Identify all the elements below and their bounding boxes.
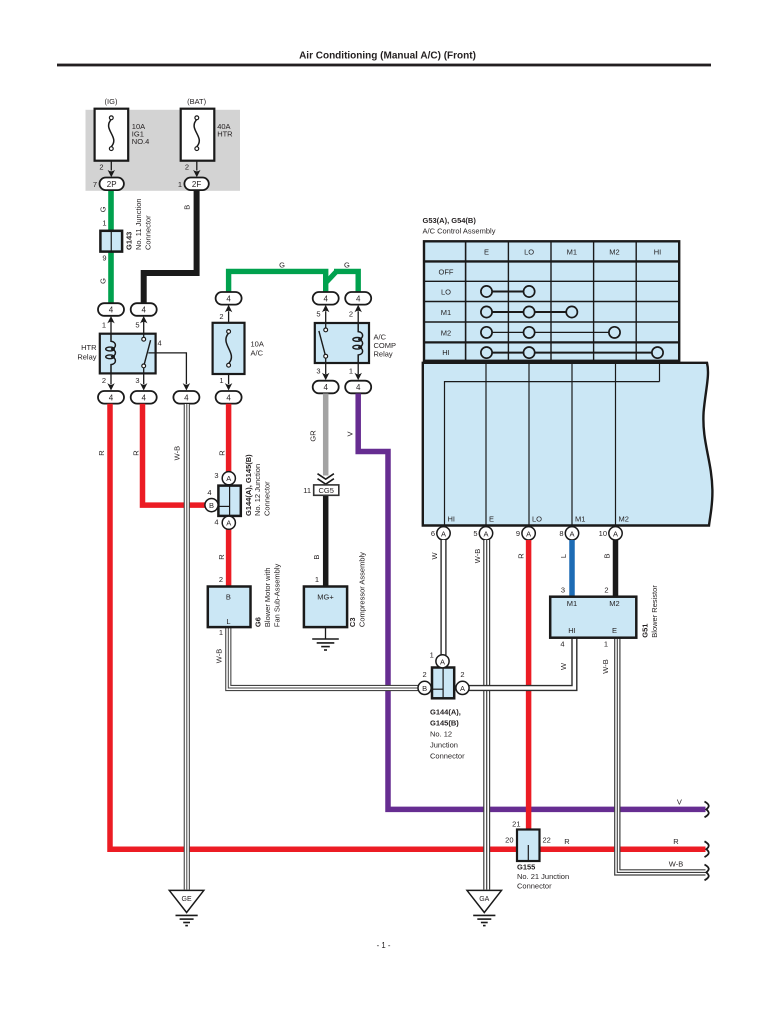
svg-text:W-B: W-B bbox=[173, 446, 182, 460]
svg-text:1: 1 bbox=[102, 219, 106, 228]
svg-text:CG5: CG5 bbox=[318, 486, 333, 495]
svg-text:B: B bbox=[422, 684, 427, 693]
wire: green G from G143 to oval 4 bbox=[108, 251, 114, 304]
arrow down from fuse A/C bbox=[225, 374, 232, 391]
label R near G155 bbox=[564, 837, 570, 846]
svg-text:2: 2 bbox=[604, 586, 608, 595]
svg-text:1: 1 bbox=[315, 575, 319, 584]
svg-text:LO: LO bbox=[524, 247, 534, 256]
svg-text:Junction: Junction bbox=[430, 741, 458, 750]
svg-text:GR: GR bbox=[309, 430, 318, 442]
wire: W-B from blower motor pin1 to junction B bbox=[228, 627, 418, 688]
svg-text:W: W bbox=[559, 662, 568, 670]
blower motor G6 bbox=[208, 563, 282, 637]
svg-text:W-B: W-B bbox=[601, 659, 610, 673]
page number bbox=[377, 941, 391, 950]
wire color labels left column bbox=[97, 430, 354, 663]
wire: blue L from control pin8 to resistor bbox=[569, 540, 575, 598]
header rule bbox=[57, 64, 711, 67]
svg-text:M1: M1 bbox=[575, 515, 585, 524]
svg-text:HI: HI bbox=[654, 247, 662, 256]
block: A/C control assembly body bbox=[423, 363, 713, 526]
svg-text:R: R bbox=[673, 837, 679, 846]
block internal wire E bbox=[485, 363, 487, 526]
svg-text:8: 8 bbox=[559, 529, 563, 538]
label G wire color (lower) bbox=[98, 278, 107, 284]
svg-text:Connector: Connector bbox=[144, 215, 153, 250]
svg-text:G155: G155 bbox=[517, 863, 535, 872]
wire: purple V from COMP pin1 to right edge bbox=[358, 394, 705, 810]
svg-text:9: 9 bbox=[102, 254, 106, 263]
wire: gray GR from COMP pin3 to CG5 bbox=[323, 394, 329, 476]
label B wire color bbox=[183, 205, 192, 210]
connector oval 4 (HTR relay pin 5 top) bbox=[131, 303, 157, 316]
continuation arrow V bbox=[705, 802, 709, 818]
wire: black B from 2F to oval 4 bbox=[144, 190, 197, 304]
table row LO contacts bbox=[481, 286, 535, 297]
svg-text:G: G bbox=[98, 278, 107, 284]
svg-text:NO.4: NO.4 bbox=[132, 137, 150, 146]
ground at compressor bbox=[312, 627, 339, 650]
arrow up into COMP pin5 oval bbox=[316, 305, 329, 323]
svg-text:2: 2 bbox=[423, 670, 427, 679]
label R at right bbox=[673, 837, 679, 846]
svg-text:G143: G143 bbox=[125, 232, 134, 250]
svg-text:G: G bbox=[98, 206, 107, 212]
svg-text:4: 4 bbox=[184, 393, 189, 402]
svg-text:21: 21 bbox=[512, 819, 520, 828]
connector pin 9 A bbox=[516, 527, 535, 540]
wire: HTR relay pin 4 tap bbox=[148, 353, 190, 391]
svg-text:LO: LO bbox=[532, 515, 542, 524]
svg-text:A: A bbox=[440, 657, 445, 666]
svg-text:5: 5 bbox=[316, 310, 320, 319]
svg-text:2: 2 bbox=[219, 575, 223, 584]
svg-text:3: 3 bbox=[135, 376, 139, 385]
svg-text:B: B bbox=[183, 205, 192, 210]
svg-text:4: 4 bbox=[214, 518, 218, 527]
svg-text:Compressor Assembly: Compressor Assembly bbox=[357, 552, 366, 627]
svg-text:Air Conditioning (Manual A/C): Air Conditioning (Manual A/C) (Front) bbox=[299, 51, 476, 62]
svg-text:G53(A), G54(B): G53(A), G54(B) bbox=[423, 216, 477, 225]
connector oval 2F bbox=[178, 178, 209, 191]
arrow into 2F bbox=[193, 161, 200, 178]
svg-text:6: 6 bbox=[431, 529, 435, 538]
svg-text:A: A bbox=[441, 529, 446, 538]
label G wire color (upper) bbox=[98, 206, 107, 212]
svg-text:A: A bbox=[226, 519, 231, 528]
svg-text:2: 2 bbox=[460, 670, 464, 679]
block internal wire M2 bbox=[615, 363, 617, 526]
svg-text:R: R bbox=[131, 450, 140, 456]
svg-text:2: 2 bbox=[349, 310, 353, 319]
svg-text:A/C Control Assembly: A/C Control Assembly bbox=[423, 227, 496, 236]
svg-text:11: 11 bbox=[303, 486, 311, 495]
block internal wire LO bbox=[528, 363, 530, 526]
svg-text:2F: 2F bbox=[192, 180, 201, 189]
svg-text:G51: G51 bbox=[641, 624, 650, 638]
svg-text:2: 2 bbox=[185, 163, 189, 172]
svg-text:E: E bbox=[489, 515, 494, 524]
wire: black B from control pin10 to resistor bbox=[613, 540, 619, 598]
arrow up into fuse A/C oval bbox=[219, 305, 232, 323]
svg-text:4: 4 bbox=[207, 488, 211, 497]
title: Air Conditioning (Manual A/C) (Front) bbox=[299, 51, 476, 62]
svg-text:(BAT): (BAT) bbox=[187, 97, 207, 106]
svg-text:3: 3 bbox=[316, 367, 320, 376]
ground GE bbox=[169, 890, 204, 925]
label G53(A), G54(B) A/C Control Assembly bbox=[423, 216, 496, 236]
wire: W from control pin6 to junction2 bbox=[440, 540, 446, 655]
svg-text:A: A bbox=[569, 529, 574, 538]
svg-text:22: 22 bbox=[543, 835, 551, 844]
svg-text:B: B bbox=[209, 501, 214, 510]
connector CG5 bbox=[303, 474, 339, 496]
svg-text:G: G bbox=[344, 260, 350, 269]
svg-text:4: 4 bbox=[226, 393, 231, 402]
svg-text:1: 1 bbox=[430, 651, 434, 660]
svg-text:W-B: W-B bbox=[669, 859, 683, 868]
svg-text:4: 4 bbox=[356, 294, 361, 303]
svg-text:E: E bbox=[484, 247, 489, 256]
svg-text:G145(B): G145(B) bbox=[430, 719, 459, 728]
svg-text:Connector: Connector bbox=[263, 481, 272, 516]
relay HTR bbox=[77, 334, 161, 374]
connector oval 4 (HTR pin3 bottom) bbox=[131, 391, 157, 404]
svg-text:LO: LO bbox=[441, 288, 451, 297]
wire: red R from fuse A/C to junction A bbox=[226, 404, 232, 472]
svg-text:G6: G6 bbox=[254, 617, 263, 627]
svg-text:HTR: HTR bbox=[217, 130, 233, 139]
svg-text:2: 2 bbox=[99, 163, 103, 172]
svg-text:V: V bbox=[677, 798, 682, 807]
connector pin 5 A bbox=[473, 527, 492, 540]
svg-text:1: 1 bbox=[219, 628, 223, 637]
svg-text:1: 1 bbox=[219, 376, 223, 385]
connector pin 8 A bbox=[559, 527, 578, 540]
wire: red R from HTR pin2 to bottom bus bbox=[110, 404, 706, 849]
svg-text:A: A bbox=[613, 529, 618, 538]
connector oval 4 (fuse A/C top) bbox=[216, 292, 242, 305]
svg-text:Connector: Connector bbox=[517, 882, 552, 891]
svg-text:No. 21 Junction: No. 21 Junction bbox=[517, 872, 569, 881]
wire: green G bus to A/C fuse and COMP relay bbox=[229, 260, 359, 293]
table row M2 contacts bbox=[481, 327, 620, 338]
connector oval 4 (HTR relay pin 1 top) bbox=[98, 303, 124, 316]
connector oval 4 (COMP pin3 bottom) bbox=[313, 381, 339, 394]
fuse 10A A/C bbox=[213, 323, 264, 385]
svg-text:R: R bbox=[97, 450, 106, 456]
svg-text:1: 1 bbox=[349, 367, 353, 376]
arrow into 2P bbox=[108, 161, 115, 178]
connector oval 4 (HTR pin4 bottom) bbox=[173, 391, 199, 404]
svg-text:10: 10 bbox=[599, 529, 607, 538]
wire: red R junction A to blower motor bbox=[226, 529, 232, 587]
svg-text:M1: M1 bbox=[567, 599, 577, 608]
svg-text:2: 2 bbox=[219, 312, 223, 321]
svg-text:3: 3 bbox=[214, 471, 218, 480]
svg-text:M2: M2 bbox=[609, 247, 619, 256]
fuse 10A IG1 NO.4 bbox=[95, 97, 150, 172]
connector pin 6 A bbox=[431, 527, 450, 540]
svg-text:No. 12 Junction: No. 12 Junction bbox=[253, 464, 262, 516]
svg-text:W-B: W-B bbox=[473, 549, 482, 563]
connector oval 4 (COMP pin5 top) bbox=[313, 292, 339, 305]
svg-text:A: A bbox=[460, 684, 465, 693]
connector pin 10 A bbox=[599, 527, 623, 540]
connector oval 4 (fuse A/C bottom) bbox=[216, 391, 242, 404]
svg-text:Blower Motor with: Blower Motor with bbox=[263, 567, 272, 627]
svg-text:Blower Resistor: Blower Resistor bbox=[650, 585, 659, 638]
block internal wire M1 bbox=[571, 363, 573, 526]
table row M1 contacts bbox=[481, 306, 578, 317]
svg-text:B: B bbox=[602, 553, 611, 558]
arrow down from pin3 bbox=[135, 373, 147, 390]
svg-text:G144(A), G145(B): G144(A), G145(B) bbox=[244, 454, 253, 516]
fuse 40A HTR bbox=[181, 97, 233, 172]
wire: red R from control pin9 to G155 bbox=[526, 540, 532, 845]
wire: W from resistor HI to junction2 A bbox=[469, 639, 575, 689]
svg-text:4: 4 bbox=[560, 640, 564, 649]
svg-text:HI: HI bbox=[448, 515, 456, 524]
svg-text:A/C: A/C bbox=[251, 349, 264, 358]
svg-text:Relay: Relay bbox=[77, 353, 96, 362]
svg-text:M1: M1 bbox=[441, 308, 451, 317]
svg-text:A: A bbox=[483, 529, 488, 538]
svg-text:5: 5 bbox=[473, 529, 477, 538]
block internal wire HI column bbox=[659, 363, 661, 382]
svg-text:4: 4 bbox=[323, 383, 328, 392]
svg-text:4: 4 bbox=[158, 339, 162, 348]
svg-text:R: R bbox=[516, 553, 525, 559]
svg-text:B: B bbox=[226, 593, 231, 602]
connector oval 2P bbox=[93, 178, 124, 191]
svg-text:B: B bbox=[312, 555, 321, 560]
junction connector G155 No.21 bbox=[505, 819, 569, 890]
svg-text:2P: 2P bbox=[107, 180, 117, 189]
wire: W-B from resistor E to right edge bbox=[617, 639, 705, 873]
wire color labels under control assembly bbox=[430, 549, 611, 674]
svg-text:M2: M2 bbox=[441, 328, 451, 337]
arrow up into COMP pin2 oval bbox=[349, 305, 362, 323]
svg-text:No. 12: No. 12 bbox=[430, 730, 452, 739]
svg-text:GE: GE bbox=[182, 896, 192, 903]
svg-text:L: L bbox=[559, 554, 568, 558]
arrow down from COMP pin3 bbox=[316, 363, 329, 380]
arrow down from COMP pin1 bbox=[349, 363, 362, 380]
ground GA bbox=[467, 890, 502, 925]
continuation arrow R bbox=[705, 841, 709, 857]
connector oval 4 (COMP pin2 top) bbox=[345, 292, 371, 305]
svg-text:V: V bbox=[346, 431, 355, 436]
svg-text:9: 9 bbox=[516, 529, 520, 538]
svg-text:HTR: HTR bbox=[81, 343, 97, 352]
svg-text:No. 11 Junction: No. 11 Junction bbox=[134, 198, 143, 250]
svg-text:- 1 -: - 1 - bbox=[377, 941, 391, 950]
relay A/C COMP bbox=[315, 323, 396, 363]
svg-text:4: 4 bbox=[356, 383, 361, 392]
wire: red R from HTR pin3 to junction B bbox=[143, 404, 206, 505]
svg-text:3: 3 bbox=[561, 586, 565, 595]
arrow up into oval pin1 bbox=[102, 316, 115, 334]
svg-text:M2: M2 bbox=[609, 599, 619, 608]
svg-text:4: 4 bbox=[109, 393, 114, 402]
wire: W-B from HTR pin4 oval to ground GE bbox=[184, 404, 190, 890]
svg-text:G144(A),: G144(A), bbox=[430, 708, 461, 717]
junction connector G144(A) G145(B) No.12 (lower) bbox=[418, 651, 469, 761]
label V at right bbox=[677, 798, 682, 807]
block pin name labels bbox=[448, 515, 629, 524]
svg-text:M1: M1 bbox=[567, 247, 577, 256]
svg-text:2: 2 bbox=[102, 376, 106, 385]
svg-text:C3: C3 bbox=[348, 618, 357, 628]
svg-text:HI: HI bbox=[568, 626, 576, 635]
svg-text:HI: HI bbox=[442, 348, 450, 357]
fuse box panel bbox=[86, 110, 241, 191]
table row HI contacts bbox=[481, 347, 663, 358]
svg-text:1: 1 bbox=[178, 180, 182, 189]
svg-text:4: 4 bbox=[323, 294, 328, 303]
compressor MG+ C3 bbox=[304, 552, 367, 627]
svg-text:G: G bbox=[279, 260, 285, 269]
svg-text:Connector: Connector bbox=[430, 752, 465, 761]
svg-text:1: 1 bbox=[604, 640, 608, 649]
svg-text:W-B: W-B bbox=[215, 649, 224, 663]
svg-text:L: L bbox=[226, 617, 230, 626]
svg-text:E: E bbox=[612, 626, 617, 635]
connector oval 4 (HTR pin2 bottom) bbox=[98, 391, 124, 404]
arrow down from pin2 bbox=[102, 373, 115, 390]
wire: black B from CG5 to MG+ bbox=[323, 495, 329, 587]
svg-text:M2: M2 bbox=[619, 515, 629, 524]
wire: W-B from control pin5 to ground GA bbox=[483, 540, 490, 890]
svg-text:R: R bbox=[217, 554, 226, 560]
label W-B at right bbox=[669, 859, 683, 868]
continuation arrow W-B bbox=[705, 865, 709, 881]
table: A/C control switch matrix bbox=[424, 241, 679, 360]
svg-text:4: 4 bbox=[141, 306, 146, 315]
wire: green G from 2P to G143 bbox=[108, 190, 114, 232]
svg-text:W: W bbox=[430, 552, 439, 560]
svg-text:1: 1 bbox=[102, 321, 106, 330]
svg-text:MG+: MG+ bbox=[317, 593, 334, 602]
junction connector G143 bbox=[100, 198, 152, 262]
svg-text:R: R bbox=[564, 837, 570, 846]
svg-text:GA: GA bbox=[479, 896, 489, 903]
resistor G51 blower resistor bbox=[550, 585, 659, 649]
svg-text:10A: 10A bbox=[251, 340, 264, 349]
svg-text:A: A bbox=[526, 529, 531, 538]
connector oval 4 (COMP pin1 bottom) bbox=[345, 381, 371, 394]
svg-text:A: A bbox=[226, 474, 231, 483]
arrow up into oval pin5 bbox=[135, 316, 147, 334]
svg-text:OFF: OFF bbox=[439, 267, 454, 276]
svg-text:4: 4 bbox=[226, 294, 231, 303]
svg-text:(IG): (IG) bbox=[105, 97, 118, 106]
svg-text:Relay: Relay bbox=[374, 350, 393, 359]
svg-text:4: 4 bbox=[109, 306, 114, 315]
svg-text:R: R bbox=[218, 450, 227, 456]
junction connector G144(A) G145(B) No.12 (upper) bbox=[205, 454, 272, 529]
svg-text:7: 7 bbox=[93, 180, 97, 189]
svg-text:20: 20 bbox=[505, 835, 513, 844]
svg-text:Fan Sub-Assembly: Fan Sub-Assembly bbox=[272, 563, 281, 627]
svg-text:4: 4 bbox=[141, 393, 146, 402]
block internal wire HI bus bbox=[445, 382, 660, 526]
svg-text:5: 5 bbox=[135, 321, 139, 330]
